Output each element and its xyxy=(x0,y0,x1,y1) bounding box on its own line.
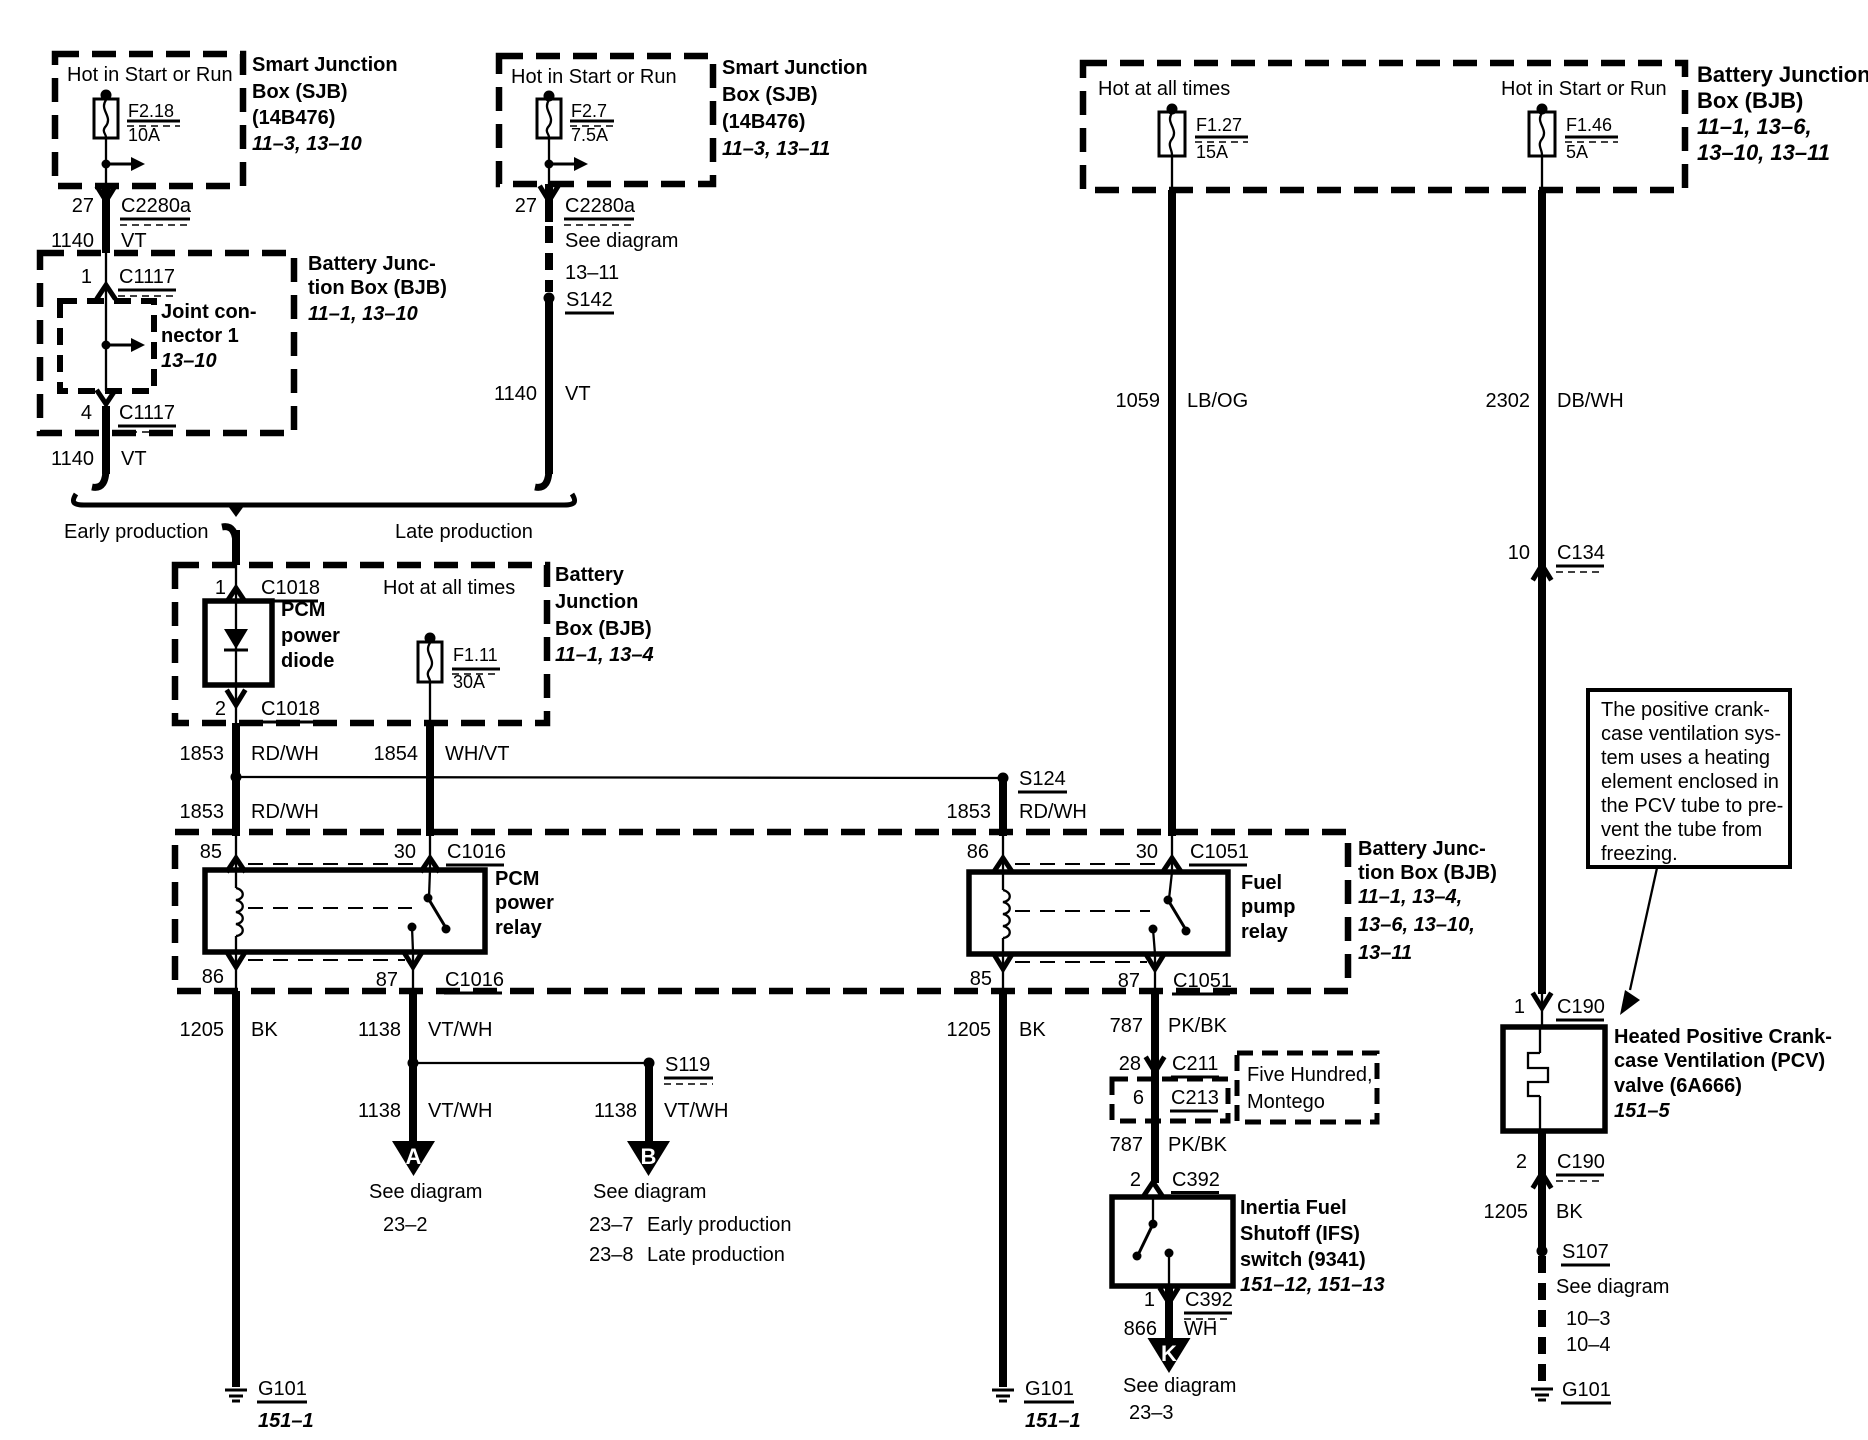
wire: fuse F2.18 lead down inside SJB xyxy=(105,138,107,186)
svg-text:S107: S107 xyxy=(1562,1241,1609,1263)
label S124 xyxy=(1018,768,1067,792)
svg-text:85: 85 xyxy=(200,841,222,863)
Five Hundred, Montego dashed box xyxy=(1237,1053,1377,1122)
label G101 (right) xyxy=(1561,1379,1611,1403)
svg-text:Hot at all times: Hot at all times xyxy=(1098,78,1230,100)
svg-text:Smart Junction: Smart Junction xyxy=(722,57,868,79)
Heated PCV valve box xyxy=(1503,1027,1605,1131)
connector C1016 dashed link bottom xyxy=(248,959,405,961)
wire: pin 30 lead xyxy=(429,836,431,870)
wire: arrow to other circuits in SJB 2 xyxy=(549,157,588,171)
pin arrow up at C392 pin 2 xyxy=(1145,1182,1161,1194)
svg-text:G101: G101 xyxy=(258,1378,307,1400)
node: fuse F2.18 top junction dot xyxy=(101,90,112,101)
pin arrow down at pin 86 xyxy=(228,954,244,967)
svg-text:151–1: 151–1 xyxy=(258,1410,314,1432)
node: fuse F2.7 top junction dot xyxy=(544,91,555,102)
svg-text:787: 787 xyxy=(1110,1015,1143,1037)
svg-text:F2.18: F2.18 xyxy=(128,101,174,121)
wire: F1.27 lead down xyxy=(1171,156,1173,190)
svg-text:1140: 1140 xyxy=(51,448,94,470)
svg-text:11–1, 13–4: 11–1, 13–4 xyxy=(555,644,654,666)
node: bracket center tick xyxy=(228,506,244,517)
node S107 splice dot xyxy=(1537,1246,1548,1257)
svg-text:diode: diode xyxy=(281,650,334,672)
svg-text:PCM: PCM xyxy=(495,868,539,890)
Smart Junction Box (SJB) dashed box 2 xyxy=(499,56,713,184)
label Heated Positive Crank-case Ventilation (PCV) valve (6A666) 151-5 xyxy=(1614,1026,1832,1122)
Battery Junction Box (BJB) dashed box left xyxy=(40,253,294,433)
svg-text:See diagram: See diagram xyxy=(1123,1375,1236,1397)
svg-text:nector 1: nector 1 xyxy=(161,325,239,347)
svg-text:13–11: 13–11 xyxy=(1358,942,1412,964)
wire: pin 85 lead xyxy=(235,836,237,870)
label G101 151-1 (middle) xyxy=(1024,1378,1081,1432)
svg-text:7.5A: 7.5A xyxy=(571,125,608,145)
svg-text:VT: VT xyxy=(121,230,147,252)
svg-text:C213: C213 xyxy=(1171,1087,1219,1109)
wire: diode lead down xyxy=(235,685,237,723)
svg-text:C392: C392 xyxy=(1172,1169,1220,1191)
fuse F1.11 xyxy=(418,642,442,682)
wire label 1853 RD/WH (lower) xyxy=(180,801,319,823)
svg-text:10–4: 10–4 xyxy=(1566,1334,1611,1356)
svg-text:27: 27 xyxy=(515,195,537,217)
svg-text:F1.11: F1.11 xyxy=(453,645,498,665)
wire: short thick below SJB 2 xyxy=(545,184,553,222)
svg-text:1: 1 xyxy=(215,577,226,599)
svg-text:11–3, 13–11: 11–3, 13–11 xyxy=(722,138,830,160)
svg-text:F1.27: F1.27 xyxy=(1196,115,1242,135)
wire label 1205 BK (left) xyxy=(180,1019,279,1041)
fuel pump relay switch xyxy=(1149,872,1191,954)
svg-text:Early production: Early production xyxy=(647,1214,792,1236)
svg-text:C134: C134 xyxy=(1557,542,1605,564)
svg-text:Inertia Fuel: Inertia Fuel xyxy=(1240,1197,1347,1219)
arrow K to see diagram 23-3 xyxy=(1148,1338,1191,1373)
wire label 866 WH xyxy=(1124,1318,1218,1340)
svg-text:1059: 1059 xyxy=(1116,390,1161,412)
PCV heating element symbol xyxy=(1528,1027,1548,1131)
label PCM power relay xyxy=(495,868,554,939)
label Battery Junc-tion Box (BJB) 11-1, 13-4, 13-6, 13-10, 13-11 xyxy=(1358,838,1497,964)
label Battery Junction Box (BJB) 11-1, 13-4 xyxy=(555,564,654,666)
label S107 xyxy=(1561,1241,1610,1265)
pin arrow up at fuel pin 86 xyxy=(995,858,1011,870)
svg-text:switch (9341): switch (9341) xyxy=(1240,1249,1366,1271)
wire: curl hook top of early production feed xyxy=(222,527,236,546)
pin arrow down at C392 pin 1 xyxy=(1161,1290,1177,1303)
node: fuse F1.11 top junction dot xyxy=(425,633,436,644)
svg-text:See diagram: See diagram xyxy=(369,1181,482,1203)
svg-text:tion Box (BJB): tion Box (BJB) xyxy=(308,277,447,299)
pin label 1 C190 xyxy=(1514,996,1605,1026)
svg-text:30A: 30A xyxy=(453,672,485,692)
svg-text:30: 30 xyxy=(1136,841,1158,863)
svg-text:LB/OG: LB/OG xyxy=(1187,390,1248,412)
wire: F1.46 lead down xyxy=(1541,156,1543,190)
svg-text:G101: G101 xyxy=(1025,1378,1074,1400)
svg-text:G101: G101 xyxy=(1562,1379,1611,1401)
label F1.27 15A xyxy=(1195,115,1248,162)
pin arrow up at C1117 pin 1 xyxy=(98,285,114,297)
connector C1016 dashed link top xyxy=(248,863,418,865)
svg-text:11–1, 13–4,: 11–1, 13–4, xyxy=(1358,886,1462,908)
svg-text:Hot in Start or Run: Hot in Start or Run xyxy=(511,66,677,88)
wire: arrow to other circuits in SJB 1 xyxy=(106,157,145,171)
svg-text:1853: 1853 xyxy=(180,743,225,765)
PCM relay mechanical link dashed xyxy=(248,907,412,909)
wire label 1853 RD/WH (right) xyxy=(947,801,1087,823)
svg-text:C1018: C1018 xyxy=(261,577,320,599)
svg-text:Smart Junction: Smart Junction xyxy=(252,54,398,76)
wire: fuel relay pin 30 lead xyxy=(1171,836,1173,872)
pin label 87 C1051 (fuel pump relay) xyxy=(1118,970,1232,994)
svg-text:Shutoff (IFS): Shutoff (IFS) xyxy=(1240,1223,1360,1245)
svg-text:28: 28 xyxy=(1119,1053,1141,1075)
svg-text:C392: C392 xyxy=(1185,1289,1233,1311)
svg-text:23–3: 23–3 xyxy=(1129,1402,1174,1424)
wire: 866 WH to arrow K xyxy=(1165,1286,1173,1340)
svg-text:VT: VT xyxy=(565,383,591,405)
svg-text:the PCV tube to pre-: the PCV tube to pre- xyxy=(1601,795,1783,817)
wire: pin 87 lead out xyxy=(412,952,414,991)
svg-text:1138: 1138 xyxy=(358,1100,401,1122)
svg-text:Box (BJB): Box (BJB) xyxy=(555,618,652,640)
svg-text:1140: 1140 xyxy=(494,383,537,405)
connector label C2280a (col 2) xyxy=(564,195,636,225)
svg-text:C190: C190 xyxy=(1557,1151,1605,1173)
svg-text:PCM: PCM xyxy=(281,599,325,621)
pin arrow down at C2280a pin 27 xyxy=(98,188,114,201)
svg-text:1: 1 xyxy=(81,266,92,288)
wire label 1205 BK (middle) xyxy=(947,1019,1047,1041)
wire: 1853 RD/WH upper segment xyxy=(232,723,240,836)
pin arrow up at C190 pin 2 xyxy=(1534,1173,1550,1186)
svg-text:case Ventilation (PCV): case Ventilation (PCV) xyxy=(1614,1050,1825,1072)
wire: thick feed into BJB mid box xyxy=(232,530,240,565)
label G101 151-1 (left) xyxy=(257,1378,314,1432)
wire: thin lead BJB top to joint connector xyxy=(105,253,107,301)
diode symbol xyxy=(224,601,248,685)
svg-text:87: 87 xyxy=(376,969,398,991)
svg-text:B: B xyxy=(641,1144,657,1169)
label See diagram 10-3 10-4 xyxy=(1556,1276,1669,1356)
svg-text:Box (SJB): Box (SJB) xyxy=(252,81,348,103)
svg-text:Battery Junc-: Battery Junc- xyxy=(1358,838,1486,860)
svg-text:VT/WH: VT/WH xyxy=(428,1019,492,1041)
svg-text:1: 1 xyxy=(1144,1289,1155,1311)
svg-text:C2280a: C2280a xyxy=(565,195,636,217)
svg-text:Heated Positive Crank-: Heated Positive Crank- xyxy=(1614,1026,1832,1048)
pin label 1 C1117 xyxy=(81,266,176,296)
svg-text:13–6, 13–10,: 13–6, 13–10, xyxy=(1358,914,1475,936)
svg-text:23–7: 23–7 xyxy=(589,1214,634,1236)
pin label 87 C1016 (PCM relay) xyxy=(376,969,504,993)
wire label 787 PK/BK (lower) xyxy=(1110,1134,1228,1156)
Battery Junction Box (BJB) dashed box middle xyxy=(175,565,547,723)
wire: curl hook end of late production wire xyxy=(535,468,549,487)
svg-text:tion Box (BJB): tion Box (BJB) xyxy=(1358,862,1497,884)
svg-text:Late production: Late production xyxy=(395,521,533,543)
Battery Junction Box (BJB) dashed box top right xyxy=(1083,63,1685,190)
node: arrow junction dot in SJB 1 xyxy=(102,160,111,169)
ground G101 (right) xyxy=(1531,1389,1553,1400)
wire: 1854 WH/VT xyxy=(426,723,434,836)
svg-text:pump: pump xyxy=(1241,896,1295,918)
svg-text:13–10, 13–11: 13–10, 13–11 xyxy=(1697,140,1830,165)
wire label 1138 VT/WH (lower right) xyxy=(594,1100,728,1122)
ground G101 (left) xyxy=(225,1390,247,1401)
wire: 1853 RD/WH from S124 down xyxy=(999,778,1007,836)
wire: early/late production bracket xyxy=(73,494,574,505)
label Smart Junction Box (SJB) (14B476) 11-3, 13-11 xyxy=(722,57,868,160)
label S142 xyxy=(565,289,614,313)
label Five Hundred, Montego xyxy=(1247,1064,1373,1113)
svg-text:VT/WH: VT/WH xyxy=(664,1100,728,1122)
pin label 30 C1016 (PCM relay) xyxy=(394,841,506,865)
svg-text:Early production: Early production xyxy=(64,521,209,543)
label PCM power diode xyxy=(281,599,340,672)
svg-text:F2.7: F2.7 xyxy=(571,101,607,121)
pin arrow down at fuel pin 87 xyxy=(1147,956,1163,969)
label Inertia Fuel Shutoff (IFS) switch (9341) 151-12, 151-13 xyxy=(1240,1197,1385,1296)
node: fuse F1.27 top junction dot xyxy=(1167,104,1178,115)
fuel pump relay coil xyxy=(1003,872,1010,954)
label See diagram 13-11 xyxy=(565,230,678,284)
svg-text:case ventilation sys-: case ventilation sys- xyxy=(1601,723,1781,745)
svg-text:A: A xyxy=(406,1144,422,1169)
pin arrow down at fuel pin 85 xyxy=(995,956,1011,969)
label See diagram 23-3 xyxy=(1123,1375,1236,1424)
svg-text:1: 1 xyxy=(1514,996,1525,1018)
label F2.18 10A xyxy=(127,101,180,145)
svg-text:S142: S142 xyxy=(566,289,613,311)
svg-text:86: 86 xyxy=(967,841,989,863)
svg-text:13–10: 13–10 xyxy=(161,350,217,372)
svg-text:See diagram: See diagram xyxy=(565,230,678,252)
svg-text:C211: C211 xyxy=(1172,1053,1218,1075)
wire label 1205 BK (right) xyxy=(1484,1201,1584,1223)
wire label 787 PK/BK (upper) xyxy=(1110,1015,1228,1037)
svg-text:Hot at all times: Hot at all times xyxy=(383,577,515,599)
pin label 6 C213 xyxy=(1133,1087,1219,1111)
label Battery Junc-tion Box (BJB) 11-1, 13-10 xyxy=(308,253,447,325)
Inertia Fuel Shutoff switch box xyxy=(1112,1197,1233,1286)
label See diagram 23-7 Early production 23-8 Late production xyxy=(589,1181,792,1266)
wire: fuel relay pin 86 lead xyxy=(1002,836,1004,872)
wire: F1.11 lead down xyxy=(429,682,431,723)
wire: 1140 VT below BJB left xyxy=(102,406,110,474)
svg-text:5A: 5A xyxy=(1566,142,1588,162)
svg-text:Montego: Montego xyxy=(1247,1091,1325,1113)
wire: 787 PK/BK from fuel pin 87 xyxy=(1151,991,1159,1079)
svg-text:C1051: C1051 xyxy=(1190,841,1249,863)
svg-text:6: 6 xyxy=(1133,1087,1144,1109)
wire: 1205 BK to G101 (left) xyxy=(232,991,240,1387)
wire label 1138 VT/WH (lower left) xyxy=(358,1100,492,1122)
wire: dashed continuation wire to S142 xyxy=(545,226,553,292)
pin arrow up at pin 30 xyxy=(422,858,438,870)
fuel pump relay mechanical link dashed xyxy=(1015,910,1150,912)
wire: pin 86 lead out xyxy=(235,952,237,991)
svg-text:11–1, 13–6,: 11–1, 13–6, xyxy=(1697,114,1812,139)
wire: 1138 VT/WH to arrow A xyxy=(409,1063,417,1143)
ground G101 (middle) xyxy=(992,1390,1014,1401)
wire label 1140 VT (col 2) xyxy=(494,383,591,405)
pin label 28 C211 xyxy=(1119,1053,1219,1077)
wire label 1854 WH/VT xyxy=(374,743,510,765)
svg-text:30: 30 xyxy=(394,841,416,863)
pin label 1 C392 xyxy=(1144,1289,1233,1319)
pin arrow up at fuel pin 30 xyxy=(1164,858,1180,870)
wire: fuse F2.7 lead down inside SJB 2 xyxy=(548,138,550,184)
svg-text:1140: 1140 xyxy=(51,230,94,252)
pin arrow down at C1117 pin 4 xyxy=(98,392,114,404)
wire label 1140 VT (lower) xyxy=(51,448,147,470)
svg-text:C1016: C1016 xyxy=(447,841,506,863)
svg-text:Battery Junction: Battery Junction xyxy=(1697,62,1868,87)
svg-text:VT/WH: VT/WH xyxy=(428,1100,492,1122)
fuse F2.18 xyxy=(94,99,118,138)
svg-text:relay: relay xyxy=(495,917,543,939)
svg-text:F1.46: F1.46 xyxy=(1566,115,1612,135)
label Fuel pump relay xyxy=(1241,872,1295,943)
svg-text:tem uses a heating: tem uses a heating xyxy=(1601,747,1770,769)
svg-text:WH/VT: WH/VT xyxy=(445,743,509,765)
svg-text:2: 2 xyxy=(1516,1151,1527,1173)
svg-text:151–12, 151–13: 151–12, 151–13 xyxy=(1240,1274,1385,1296)
pin label 2 C1018 xyxy=(215,698,320,722)
Fuel pump relay box xyxy=(969,872,1228,954)
label F2.7 7.5A xyxy=(570,101,614,145)
label See diagram 23-2 xyxy=(369,1181,482,1236)
Joint connector 1 inner dashed box xyxy=(60,301,154,391)
Battery Junction Box (BJB) dashed box around relays xyxy=(175,832,1348,991)
PCM relay switch xyxy=(408,870,451,952)
wire: 1138 VT/WH from pin 87 xyxy=(409,991,417,1063)
pin arrow up at C134 pin 10 xyxy=(1534,565,1550,578)
svg-text:13–11: 13–11 xyxy=(565,262,619,284)
svg-text:valve (6A666): valve (6A666) xyxy=(1614,1075,1742,1097)
svg-text:C1117: C1117 xyxy=(119,266,175,288)
wire: thin link to S119 xyxy=(413,1062,649,1064)
svg-text:Hot in Start or Run: Hot in Start or Run xyxy=(1501,78,1667,100)
svg-text:See diagram: See diagram xyxy=(593,1181,706,1203)
wire: fuel pin 87 lead out xyxy=(1154,954,1156,991)
pin label 1 C1018 xyxy=(215,577,320,601)
svg-text:PK/BK: PK/BK xyxy=(1168,1015,1228,1037)
svg-text:C1117: C1117 xyxy=(119,402,175,424)
svg-text:Joint con-: Joint con- xyxy=(161,301,257,323)
note box about PCV heating element xyxy=(1588,690,1790,867)
wire: 1059 LB/OG down to fuel pump relay pin 30 xyxy=(1168,190,1176,836)
fuse F2.7 xyxy=(537,99,561,138)
svg-text:1854: 1854 xyxy=(374,743,419,765)
svg-text:freezing.: freezing. xyxy=(1601,843,1678,865)
wire: 1138 VT/WH from S119 to arrow B xyxy=(645,1063,653,1143)
pin arrow down at C2280a pin 27 (col 2) xyxy=(541,188,557,201)
node: junction dot to S119 xyxy=(408,1058,419,1069)
svg-text:C2280a: C2280a xyxy=(121,195,192,217)
svg-text:1853: 1853 xyxy=(947,801,992,823)
wire: lead into PCV valve xyxy=(1541,994,1543,1027)
svg-text:15A: 15A xyxy=(1196,142,1228,162)
node S119 splice dot xyxy=(644,1058,655,1069)
svg-text:RD/WH: RD/WH xyxy=(1019,801,1087,823)
pin arrow down at C1018 pin 2 xyxy=(228,692,244,705)
wire: dashed continuation to G101 (right) xyxy=(1538,1256,1546,1386)
svg-text:1138: 1138 xyxy=(358,1019,401,1041)
connector C1051 dashed link bottom xyxy=(1015,961,1147,963)
wire: arrow to other circuits in joint connector xyxy=(106,338,145,352)
wire: thin link to S124 xyxy=(236,777,1003,778)
node S142 splice dot xyxy=(544,293,555,304)
node: fuse F1.46 top junction dot xyxy=(1537,104,1548,115)
svg-text:1138: 1138 xyxy=(594,1100,637,1122)
wire label 1138 VT/WH (upper) xyxy=(358,1019,492,1041)
wire label 1140 VT xyxy=(51,230,147,252)
svg-text:1205: 1205 xyxy=(1484,1201,1529,1223)
svg-text:Hot in Start or Run: Hot in Start or Run xyxy=(67,64,233,86)
wire: 2302 DB/WH down from F1.46 xyxy=(1538,190,1546,994)
pin arrow down at C190 pin 1 xyxy=(1534,995,1550,1008)
svg-text:VT: VT xyxy=(121,448,147,470)
svg-text:(14B476): (14B476) xyxy=(722,111,805,133)
svg-text:power: power xyxy=(495,892,554,914)
svg-text:87: 87 xyxy=(1118,970,1140,992)
svg-text:Battery Junc-: Battery Junc- xyxy=(308,253,436,275)
svg-text:Box (SJB): Box (SJB) xyxy=(722,84,818,106)
svg-text:23–8: 23–8 xyxy=(589,1244,634,1266)
svg-text:1205: 1205 xyxy=(180,1019,225,1041)
svg-text:787: 787 xyxy=(1110,1134,1143,1156)
label Battery Junction Box (BJB) 11-1, 13-6, 13-10, 13-11 xyxy=(1697,62,1868,165)
svg-text:Late production: Late production xyxy=(647,1244,785,1266)
svg-text:See diagram: See diagram xyxy=(1556,1276,1669,1298)
svg-text:C1051: C1051 xyxy=(1173,970,1232,992)
svg-text:151–5: 151–5 xyxy=(1614,1100,1670,1122)
label F1.11 30A xyxy=(452,645,500,692)
note text xyxy=(1601,699,1783,865)
svg-text:2: 2 xyxy=(1130,1169,1141,1191)
svg-text:BK: BK xyxy=(251,1019,278,1041)
svg-text:Box (BJB): Box (BJB) xyxy=(1697,88,1803,113)
svg-text:Battery: Battery xyxy=(555,564,625,586)
Smart Junction Box (SJB) dashed box 1 xyxy=(55,54,243,186)
svg-text:RD/WH: RD/WH xyxy=(251,801,319,823)
PCM relay coil xyxy=(236,870,243,952)
pin arrow down at C211 pin 28 xyxy=(1147,1059,1163,1072)
svg-text:WH: WH xyxy=(1184,1318,1217,1340)
node: arrow junction dot in SJB 2 xyxy=(545,160,554,169)
label Smart Junction Box (SJB) (14B476) 11-3, 13-10 (box 1) xyxy=(252,54,398,155)
wire: through joint connector xyxy=(105,301,107,391)
wire: curl hook end of early production wire xyxy=(92,468,106,487)
svg-text:11–3, 13–10: 11–3, 13–10 xyxy=(252,133,362,155)
svg-text:S119: S119 xyxy=(665,1054,710,1076)
svg-text:2: 2 xyxy=(215,698,226,720)
svg-text:27: 27 xyxy=(72,195,94,217)
svg-text:C190: C190 xyxy=(1557,996,1605,1018)
svg-text:1205: 1205 xyxy=(947,1019,992,1041)
svg-text:power: power xyxy=(281,625,340,647)
connector C213 dashed box xyxy=(1112,1079,1228,1121)
svg-text:relay: relay xyxy=(1241,921,1289,943)
svg-text:Fuel: Fuel xyxy=(1241,872,1282,894)
svg-text:RD/WH: RD/WH xyxy=(251,743,319,765)
wire: lead into diode xyxy=(235,565,237,601)
